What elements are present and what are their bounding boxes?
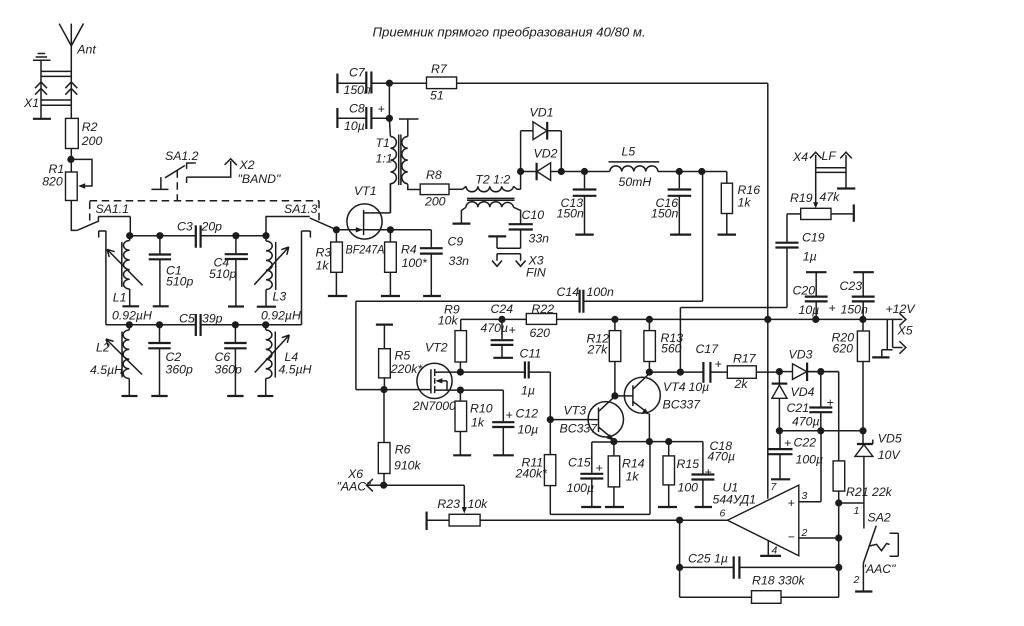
resistor R11: [515, 372, 556, 514]
diode VD2: [521, 147, 562, 181]
node L1/SA1.1: [126, 232, 133, 239]
svg-text:SA1.2: SA1.2: [165, 149, 199, 163]
ground R3: [328, 295, 347, 297]
svg-text:R5: R5: [395, 349, 411, 363]
transistor VT2: [384, 341, 460, 414]
svg-text:+: +: [829, 301, 836, 315]
svg-text:0.92µH: 0.92µH: [112, 309, 152, 323]
resistor R3: [316, 230, 343, 296]
node R12 tap: [611, 316, 618, 323]
svg-text:T1: T1: [376, 136, 390, 150]
svg-text:1k: 1k: [738, 196, 752, 210]
svg-text:240k*: 240k*: [515, 467, 549, 481]
svg-text:C12: C12: [516, 407, 539, 421]
ground C9: [423, 295, 441, 297]
svg-text:VD4: VD4: [791, 385, 815, 399]
diode VD4: [772, 372, 815, 431]
svg-text:2N7000: 2N7000: [412, 399, 456, 413]
resistor R17: [727, 352, 779, 392]
svg-text:620: 620: [530, 326, 551, 340]
svg-text:C23: C23: [840, 279, 863, 293]
svg-text:R6: R6: [395, 443, 411, 457]
svg-text:VT1: VT1: [354, 184, 377, 198]
ground U1 pin4: [760, 541, 781, 556]
node VD3/VD4: [776, 368, 783, 375]
svg-text:C3: C3: [177, 220, 193, 234]
resistor R12: [587, 319, 621, 396]
svg-text:C24: C24: [491, 302, 514, 316]
node C8/T1: [386, 115, 393, 122]
svg-text:100: 100: [678, 481, 699, 495]
svg-text:VT2: VT2: [425, 341, 448, 355]
capacitor C19: [775, 214, 824, 264]
capacitor C13: [557, 172, 597, 235]
ground C12: [493, 454, 514, 456]
svg-text:50mH: 50mH: [619, 175, 652, 189]
resistor R18: [681, 574, 839, 604]
capacitor C20: [793, 272, 836, 319]
node C2 tap: [156, 321, 163, 328]
resistor R9: [438, 303, 467, 372]
node U1 pin3 riser top: [817, 427, 824, 434]
ground L2: [122, 395, 138, 397]
svg-text:C17: C17: [696, 342, 720, 356]
wire zener row: [779, 430, 863, 432]
svg-text:R18 330k: R18 330k: [752, 574, 805, 588]
svg-text:4.5µH: 4.5µH: [90, 363, 123, 377]
node R14/VT3e: [610, 438, 617, 445]
capacitor C7: [337, 66, 389, 98]
resistor R2: [66, 118, 103, 172]
capacitor C1: [149, 236, 194, 307]
svg-text:+: +: [784, 436, 791, 450]
resistor R7: [427, 62, 457, 103]
ground C2: [151, 395, 167, 397]
ground L4: [258, 395, 274, 397]
node VT4 collector: [646, 369, 653, 376]
node output/feedback: [676, 517, 683, 524]
node C1 tap: [156, 232, 163, 239]
svg-text:SA1.1: SA1.1: [96, 202, 130, 216]
capacitor C22: [769, 431, 824, 479]
node VT4e: [646, 438, 653, 445]
capacitor C11: [460, 347, 550, 398]
svg-text:+: +: [788, 496, 795, 510]
svg-text:−: −: [788, 530, 795, 544]
svg-text:1µ: 1µ: [803, 250, 817, 264]
svg-text:3: 3: [802, 490, 808, 502]
connector X4 LF: [792, 149, 852, 188]
resistor R15: [663, 442, 699, 507]
resistor R8: [420, 168, 462, 209]
svg-text:10µ: 10µ: [799, 303, 820, 317]
svg-text:10k: 10k: [468, 497, 489, 511]
connector X5: [872, 319, 913, 357]
svg-text:200: 200: [81, 134, 103, 148]
zener diode VD5: [855, 431, 902, 529]
node C20 tap: [812, 316, 819, 323]
svg-text:910k: 910k: [394, 459, 422, 473]
inductor L4: [255, 325, 312, 396]
wire feedback vertical: [838, 503, 840, 597]
svg-text:+: +: [705, 465, 712, 479]
svg-text:R14: R14: [622, 457, 645, 471]
svg-text:510p: 510p: [209, 267, 237, 281]
wire R11 feedback: [550, 442, 650, 515]
capacitor C3: [177, 220, 222, 248]
node C16 tap: [676, 168, 683, 175]
svg-text:"AAC": "AAC": [337, 480, 372, 494]
svg-text:BF247A: BF247A: [346, 243, 385, 257]
node L4 tap: [262, 321, 269, 328]
node C13 tap: [581, 168, 588, 175]
node C7/R7: [386, 80, 393, 87]
svg-text:4.5µH: 4.5µH: [279, 363, 312, 377]
svg-text:2k: 2k: [734, 377, 749, 391]
svg-text:L1: L1: [113, 291, 127, 305]
transistor VT3: [550, 396, 623, 441]
node C23/R20 tap: [859, 316, 866, 323]
node VT1 gate / R3: [333, 226, 340, 233]
svg-text:100*: 100*: [402, 256, 429, 270]
svg-text:51: 51: [430, 89, 444, 103]
svg-text:47k: 47k: [820, 190, 841, 204]
switch SA1.2: [151, 149, 198, 201]
capacitor C23: [840, 272, 875, 319]
capacitor C18: [691, 439, 735, 507]
ground C6: [227, 395, 243, 397]
node X6 / R6: [380, 482, 387, 489]
wire mixer to C14 line: [702, 172, 704, 302]
node +12V drop: [764, 316, 771, 323]
svg-text:620: 620: [833, 342, 854, 356]
svg-text:2: 2: [853, 574, 860, 586]
ground T2: [453, 223, 471, 225]
node VT1 source: [387, 226, 394, 233]
inductor L2: [90, 325, 142, 396]
svg-text:100µ: 100µ: [567, 481, 595, 495]
svg-text:C14: C14: [557, 285, 580, 299]
svg-text:10k: 10k: [438, 314, 459, 328]
capacitor C2: [148, 325, 193, 396]
node R21/SA2 pin1: [835, 499, 842, 506]
svg-text:VD5: VD5: [878, 432, 902, 446]
svg-text:33n: 33n: [529, 232, 550, 246]
svg-text:1: 1: [854, 505, 860, 517]
svg-text:1:1: 1:1: [376, 152, 393, 166]
svg-text:L3: L3: [273, 290, 287, 304]
resistor R5: [376, 325, 423, 390]
svg-text:"BAND": "BAND": [238, 172, 282, 186]
svg-text:VT4: VT4: [663, 380, 686, 394]
resistor R16: [721, 172, 760, 235]
node VD right: [558, 168, 565, 175]
wire 40m tank bus: [130, 235, 266, 237]
svg-text:+: +: [596, 461, 603, 475]
svg-text:C11: C11: [520, 347, 542, 361]
svg-text:Приемник прямого преобразовани: Приемник прямого преобразования 40/80 м.: [373, 25, 646, 40]
svg-text:R10: R10: [470, 402, 493, 416]
svg-text:BC337: BC337: [560, 422, 599, 436]
svg-text:C19: C19: [802, 231, 825, 245]
+12V arrow: [899, 313, 906, 325]
node C19 drop: [677, 369, 684, 376]
svg-text:R2: R2: [82, 120, 98, 134]
svg-text:SA2: SA2: [868, 511, 891, 525]
resistor R6: [378, 390, 421, 486]
capacitor C6: [215, 325, 247, 396]
capacitor C8: [337, 102, 389, 134]
wire R7 output to +12V drop: [389, 82, 767, 84]
junction below R2: [67, 156, 74, 163]
node output/C25: [676, 564, 683, 571]
node R20/VD5: [859, 427, 866, 434]
resistor R13: [644, 319, 683, 372]
ground R4: [381, 295, 400, 297]
svg-text:27k: 27k: [587, 343, 609, 357]
connector X6 "AAC": [337, 467, 384, 494]
svg-text:1µ: 1µ: [521, 384, 535, 398]
svg-text:560: 560: [661, 342, 682, 356]
svg-text:150п: 150п: [344, 83, 372, 97]
svg-text:4: 4: [772, 545, 778, 557]
svg-text:R21 22k: R21 22k: [846, 485, 893, 499]
svg-text:X5: X5: [897, 324, 913, 338]
ground C13: [575, 234, 593, 236]
node C4 tap: [232, 232, 239, 239]
ground C16: [670, 234, 691, 236]
capacitor C10: [509, 208, 550, 248]
svg-text:1k: 1k: [471, 416, 485, 430]
wire C19 coupling line: [680, 248, 787, 372]
svg-text:L2: L2: [96, 341, 110, 355]
wire T2 top to VD node: [520, 172, 522, 190]
ground C24: [493, 357, 513, 359]
svg-text:10µ: 10µ: [344, 119, 365, 133]
resistor R22: [526, 302, 556, 340]
svg-text:LF: LF: [822, 149, 838, 163]
ground R14: [605, 506, 624, 508]
inductor L3: [254, 236, 301, 323]
svg-text:6: 6: [720, 508, 726, 520]
antenna Ant: [59, 24, 96, 119]
svg-text:T2 1:2: T2 1:2: [475, 173, 510, 187]
svg-text:C5: C5: [179, 312, 195, 326]
ground L1: [122, 305, 139, 307]
dashed gang line SA1: [90, 201, 319, 221]
svg-text:510p: 510p: [166, 275, 194, 289]
svg-text:X1: X1: [23, 96, 39, 110]
transistor VT4: [615, 374, 701, 442]
capacitor C15: [567, 442, 604, 507]
connector X2 "BAND": [187, 158, 281, 186]
svg-text:R8: R8: [426, 168, 442, 182]
svg-text:BC337: BC337: [663, 398, 702, 412]
svg-text:10µ: 10µ: [518, 423, 539, 437]
svg-text:100n: 100n: [587, 285, 615, 299]
diode VD1: [521, 106, 562, 172]
capacitor C21: [787, 372, 834, 431]
svg-text:+: +: [715, 357, 722, 371]
svg-text:+: +: [506, 408, 513, 422]
svg-text:470µ: 470µ: [792, 415, 820, 429]
node L2 tap: [126, 321, 133, 328]
svg-text:C10: C10: [522, 208, 545, 222]
svg-text:R23: R23: [437, 497, 460, 511]
svg-text:X4: X4: [792, 150, 808, 164]
switch SA2: [839, 503, 899, 592]
svg-text:R22: R22: [532, 302, 555, 316]
svg-text:R19: R19: [790, 191, 813, 205]
svg-text:360p: 360p: [215, 363, 243, 377]
node VT3 base: [547, 416, 554, 423]
svg-text:10V: 10V: [878, 448, 902, 462]
svg-text:C20: C20: [793, 284, 816, 298]
capacitor C12: [460, 390, 538, 455]
diode VD3: [779, 348, 838, 382]
capacitor C4: [209, 236, 248, 307]
wire C14 line to VT2 gate: [356, 301, 384, 389]
capacitor C17: [689, 342, 728, 394]
wire +12V bus: [461, 318, 903, 320]
svg-text:L5: L5: [622, 145, 636, 159]
node L3/SA1.3: [262, 232, 269, 239]
ground C18: [695, 506, 712, 508]
capacitor C9: [420, 230, 469, 296]
node VT2 gate: [380, 386, 387, 393]
wire emitter row: [592, 441, 703, 443]
node VD left: [517, 168, 524, 175]
svg-text:R3: R3: [316, 246, 332, 260]
svg-text:150n: 150n: [651, 207, 679, 221]
node VT2 drain: [457, 369, 464, 376]
svg-text:1k: 1k: [316, 259, 330, 273]
wire +12V drop / U1 pin7 feed: [767, 83, 769, 498]
svg-text:C9: C9: [448, 235, 464, 249]
capacitor C14 with line: [356, 285, 703, 313]
svg-text:100µ: 100µ: [796, 453, 824, 467]
connector X3 FIN: [488, 236, 546, 279]
resistor R4: [385, 230, 428, 296]
svg-text:544УД1: 544УД1: [713, 493, 756, 507]
transformer T2: [461, 173, 520, 225]
svg-text:R15: R15: [677, 457, 700, 471]
capacitor C5: [179, 312, 223, 337]
resistor R10: [455, 390, 493, 455]
svg-text:2: 2: [801, 527, 808, 539]
svg-text:200: 200: [424, 195, 446, 209]
svg-text:FIN: FIN: [526, 266, 546, 280]
ground C15: [581, 506, 601, 508]
svg-text:C22: C22: [794, 436, 817, 450]
svg-text:R4: R4: [401, 243, 417, 257]
svg-text:+12V: +12V: [886, 302, 917, 316]
svg-text:+: +: [378, 102, 385, 116]
wire output feedback drop: [680, 520, 681, 597]
potentiometer R23: [384, 485, 488, 530]
svg-text:33n: 33n: [449, 254, 470, 268]
svg-text:VT3: VT3: [564, 404, 587, 418]
connector X1: [23, 71, 77, 118]
wire op-amp output line: [480, 519, 727, 521]
capacitor C24: [481, 302, 516, 358]
node C25 right: [835, 564, 842, 571]
node R13 tap: [646, 316, 653, 323]
svg-text:R7: R7: [431, 62, 448, 76]
wire collector row: [649, 371, 703, 373]
chassis ground at X1: [33, 54, 51, 72]
potentiometer R19: [787, 172, 854, 221]
resistor R14: [608, 442, 645, 507]
op-amp U1: [713, 481, 808, 557]
node C21 top: [817, 368, 824, 375]
svg-text:470µ: 470µ: [481, 321, 509, 335]
transistor VT1: [336, 183, 390, 256]
svg-text:+: +: [827, 396, 834, 410]
node pin2/feedback: [835, 534, 842, 541]
inductor L1: [107, 236, 152, 323]
wire U1 pin3: [799, 431, 821, 502]
svg-text:1k: 1k: [626, 470, 640, 484]
svg-text:470µ: 470µ: [708, 450, 736, 464]
ground R10: [453, 454, 471, 456]
ground C22: [771, 478, 790, 480]
transformer T1: [376, 119, 421, 213]
node mixer down-feed: [698, 168, 705, 175]
svg-text:39p: 39p: [202, 312, 223, 326]
svg-text:VD1: VD1: [530, 106, 554, 120]
resistor R21: [807, 372, 893, 503]
switch SA1.1: [78, 202, 131, 238]
inductor L5: [609, 145, 660, 190]
svg-text:C21: C21: [787, 401, 810, 415]
resistor R20: [832, 319, 870, 430]
svg-text:C25 1µ: C25 1µ: [688, 552, 728, 566]
svg-text:Ant: Ant: [76, 43, 96, 57]
node R15 tap: [665, 438, 672, 445]
ground C4: [228, 305, 244, 307]
ground X4: [837, 187, 855, 189]
svg-text:SA1.3: SA1.3: [284, 202, 318, 216]
svg-text:"AAC": "AAC": [862, 562, 897, 576]
node C24 tap: [498, 316, 505, 323]
svg-text:VD2: VD2: [534, 147, 558, 161]
ground C1: [153, 305, 169, 307]
wire C7/C8/T1 vertical: [389, 83, 390, 136]
svg-text:C8: C8: [349, 102, 365, 116]
svg-text:R17: R17: [733, 352, 757, 366]
ground R16: [718, 234, 737, 236]
node C6 tap: [232, 321, 239, 328]
svg-text:820: 820: [42, 175, 63, 189]
wire U1 pin2: [799, 537, 839, 539]
ground R15: [658, 506, 677, 508]
svg-text:+: +: [509, 323, 516, 337]
wire R1 to SA1.1: [71, 201, 77, 231]
node C22 top: [776, 427, 783, 434]
potentiometer R1: [42, 159, 92, 200]
wire mixer output line: [561, 171, 727, 173]
svg-text:X2: X2: [239, 158, 255, 172]
svg-text:10µ: 10µ: [689, 380, 710, 394]
capacitor C16: [651, 172, 691, 235]
node VT2 source: [457, 387, 464, 394]
svg-text:150n: 150n: [841, 303, 869, 317]
svg-text:20p: 20p: [201, 220, 223, 234]
svg-text:C15: C15: [568, 456, 591, 470]
node VT3 collector / VT4 base: [611, 392, 618, 399]
wire SA1.3 to 80m bus: [301, 231, 303, 325]
